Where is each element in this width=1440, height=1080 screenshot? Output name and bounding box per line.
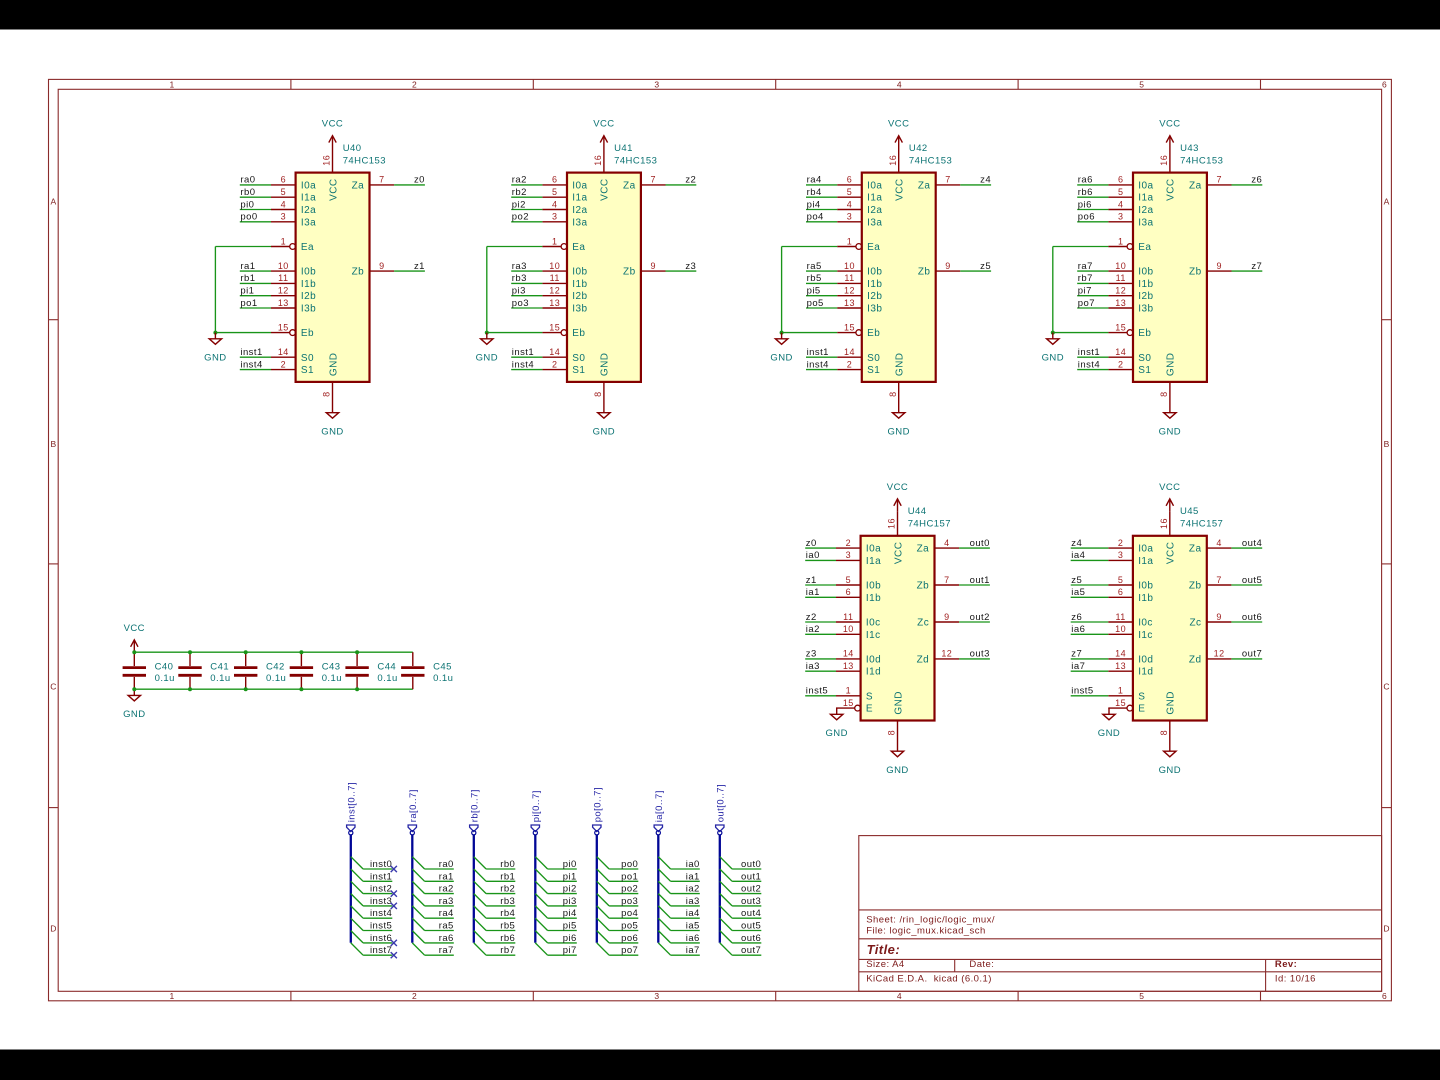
svg-text:rb5: rb5 xyxy=(500,921,515,932)
bus ra[0..7] vertical xyxy=(410,831,414,943)
junction at Eb tie of U40 xyxy=(213,331,217,335)
svg-text:12: 12 xyxy=(278,286,289,296)
no-connect X on inst7 xyxy=(391,952,397,958)
svg-text:GND: GND xyxy=(476,353,498,364)
svg-text:10: 10 xyxy=(843,624,854,634)
svg-text:z1: z1 xyxy=(414,261,425,272)
svg-text:10: 10 xyxy=(549,261,560,271)
U45 pin 16 VCC power pin xyxy=(1159,511,1170,536)
wire and net label inst4 xyxy=(511,359,542,370)
svg-text:15: 15 xyxy=(1115,322,1126,332)
svg-text:I1d: I1d xyxy=(866,667,881,678)
U41 pin 9 Zb xyxy=(623,261,665,278)
svg-text:Za: Za xyxy=(917,544,930,555)
ground symbol GND at enable tie of U43 xyxy=(1042,333,1064,364)
wire and net label ra6 xyxy=(425,933,454,944)
ruler column numbers and row letters xyxy=(50,80,1389,1002)
svg-text:I0c: I0c xyxy=(1138,618,1153,629)
svg-text:7: 7 xyxy=(650,175,655,185)
U45 pin 12 Zd xyxy=(1189,649,1231,666)
svg-text:z0: z0 xyxy=(806,538,817,549)
svg-text:4: 4 xyxy=(1216,538,1221,548)
U40 pin 7 Za xyxy=(352,175,394,192)
U44 pin 15 E xyxy=(836,698,873,715)
svg-text:7: 7 xyxy=(944,575,949,585)
svg-text:GND: GND xyxy=(1042,353,1064,364)
U40 pin 15 Eb xyxy=(271,322,314,339)
svg-text:I0a: I0a xyxy=(1138,544,1153,555)
U43 pin 11 I1b xyxy=(1108,273,1153,290)
bus entry ia4 xyxy=(658,906,670,918)
bus entry out2 xyxy=(720,881,732,893)
ground symbol GND at capacitor bank xyxy=(123,689,145,720)
svg-text:pi0: pi0 xyxy=(240,199,254,210)
U40 pin 3 I3a xyxy=(271,212,316,229)
svg-text:GND: GND xyxy=(593,427,615,438)
bus entry ra0 xyxy=(412,857,424,869)
hierarchical label inst[0..7] xyxy=(346,782,357,832)
svg-text:6: 6 xyxy=(1382,991,1387,1001)
bus entry ra2 xyxy=(412,881,424,893)
power symbol VCC at U45 xyxy=(1159,482,1180,511)
svg-text:Eb: Eb xyxy=(572,328,585,339)
wire and net label ia1 xyxy=(671,871,700,882)
bus rb[0..7] vertical xyxy=(472,831,476,943)
svg-text:ra[0..7]: ra[0..7] xyxy=(408,789,419,822)
svg-text:ra3: ra3 xyxy=(439,896,454,907)
designator U42 / value 74HC153 xyxy=(909,143,952,166)
U45 pin 3 I1a xyxy=(1108,550,1153,567)
wire and net label rb3 xyxy=(511,273,542,284)
U44 pin 2 I0a xyxy=(836,538,881,555)
svg-text:rb3: rb3 xyxy=(500,896,515,907)
svg-text:Zd: Zd xyxy=(917,654,930,665)
wire Eb tie for U41 xyxy=(487,332,543,334)
svg-text:B: B xyxy=(50,439,56,449)
svg-text:7: 7 xyxy=(945,175,950,185)
svg-text:4: 4 xyxy=(897,991,902,1001)
svg-text:ia7: ia7 xyxy=(686,945,700,956)
svg-text:16: 16 xyxy=(1159,155,1169,166)
wire and net label pi4 xyxy=(806,199,837,210)
svg-text:2: 2 xyxy=(412,80,417,90)
svg-text:pi2: pi2 xyxy=(563,884,577,895)
svg-text:15: 15 xyxy=(844,322,855,332)
wire and net label po0 xyxy=(240,212,271,223)
wire and net label out2 xyxy=(959,612,990,623)
svg-text:ia[0..7]: ia[0..7] xyxy=(654,790,665,822)
svg-text:z5: z5 xyxy=(980,261,991,272)
svg-text:I1a: I1a xyxy=(867,193,882,204)
junction at C44 top xyxy=(355,650,359,654)
wire and net label ra4 xyxy=(425,908,454,919)
svg-text:ra6: ra6 xyxy=(439,933,454,944)
wire and net label ia2 xyxy=(671,884,700,895)
U44 pin 10 I1c xyxy=(836,624,881,641)
no-connect X on inst2 xyxy=(391,891,397,897)
svg-text:Zc: Zc xyxy=(917,618,929,629)
svg-text:out7: out7 xyxy=(1242,649,1262,660)
svg-text:I3a: I3a xyxy=(572,217,587,228)
ground symbol GND below U43 xyxy=(1159,407,1181,438)
bus entry out4 xyxy=(720,906,732,918)
wire and net label po2 xyxy=(511,212,542,223)
svg-text:rb4: rb4 xyxy=(500,908,515,919)
svg-text:9: 9 xyxy=(650,261,655,271)
svg-text:po[0..7]: po[0..7] xyxy=(592,787,603,822)
bus entry ia6 xyxy=(658,931,670,943)
U43 pin 3 I3a xyxy=(1108,212,1153,229)
wire and net label pi7 xyxy=(548,945,577,956)
svg-text:I1b: I1b xyxy=(572,279,587,290)
wire and net label rb2 xyxy=(511,187,542,198)
wire and net label po6 xyxy=(609,933,638,944)
svg-text:2: 2 xyxy=(552,359,557,369)
U43 pin 14 S0 xyxy=(1108,347,1151,364)
ruler division ticks xyxy=(49,79,1392,1000)
capacitor C41 0.1u xyxy=(178,652,230,689)
bus entry pi2 xyxy=(535,881,547,893)
U40 pin 9 Zb xyxy=(352,261,394,278)
svg-text:I1a: I1a xyxy=(301,193,316,204)
wire and net label ia7 xyxy=(671,945,700,956)
svg-text:15: 15 xyxy=(1115,698,1126,708)
U40 pin 4 I2a xyxy=(271,199,316,216)
svg-text:D: D xyxy=(50,924,56,934)
wire and net label inst1 xyxy=(1077,347,1108,358)
svg-text:Title:: Title: xyxy=(867,942,901,957)
U42 pin 7 Za xyxy=(918,175,960,192)
svg-text:16: 16 xyxy=(1159,518,1169,529)
svg-text:po5: po5 xyxy=(807,298,824,309)
svg-text:out2: out2 xyxy=(741,884,761,895)
wire Eb tie for U42 xyxy=(782,332,838,334)
wire and net label inst7 xyxy=(363,945,392,956)
bus entry ia2 xyxy=(658,881,670,893)
wire and net label pi2 xyxy=(548,884,577,895)
svg-text:z6: z6 xyxy=(1071,612,1082,623)
svg-text:I2b: I2b xyxy=(1138,291,1153,302)
wire and net label po5 xyxy=(806,298,837,309)
svg-text:I3b: I3b xyxy=(572,304,587,315)
wire and net label ia6 xyxy=(671,933,700,944)
U40 pin 6 I0a xyxy=(271,175,316,192)
wire Eb tie for U43 xyxy=(1053,332,1109,334)
U44 pin 11 I0c xyxy=(836,612,881,629)
bus entry po5 xyxy=(597,918,609,930)
svg-text:I3b: I3b xyxy=(301,304,316,315)
wire and net label po6 xyxy=(1077,212,1108,223)
svg-text:3: 3 xyxy=(847,212,852,222)
svg-text:pi3: pi3 xyxy=(563,896,577,907)
svg-text:rb2: rb2 xyxy=(512,187,527,198)
svg-text:10: 10 xyxy=(1115,624,1126,634)
U45 pin 1 S xyxy=(1108,686,1145,703)
svg-text:out5: out5 xyxy=(1242,575,1262,586)
U41 pin 7 Za xyxy=(623,175,665,192)
svg-text:16: 16 xyxy=(887,518,897,529)
svg-text:4: 4 xyxy=(847,199,852,209)
svg-text:GND: GND xyxy=(825,728,847,739)
svg-text:z6: z6 xyxy=(1251,175,1262,186)
svg-text:ia3: ia3 xyxy=(686,896,700,907)
svg-text:inst4: inst4 xyxy=(1078,359,1100,370)
U40 pin 11 I1b xyxy=(271,273,316,290)
power symbol VCC at U43 xyxy=(1159,119,1180,148)
wire and net label pi5 xyxy=(548,921,577,932)
ground symbol GND below U41 xyxy=(593,407,615,438)
svg-text:rb6: rb6 xyxy=(500,933,515,944)
svg-text:I0b: I0b xyxy=(1138,581,1153,592)
U42 pin 13 I3b xyxy=(837,298,882,315)
ground symbol GND below U44 xyxy=(886,745,908,776)
U42 pin 8 GND power pin xyxy=(888,382,899,407)
svg-text:GND: GND xyxy=(321,427,343,438)
svg-text:4: 4 xyxy=(552,199,557,209)
svg-text:U40: U40 xyxy=(343,143,362,154)
svg-text:z5: z5 xyxy=(1071,575,1082,586)
svg-text:pi7: pi7 xyxy=(563,945,577,956)
U45 pin 2 I0a xyxy=(1108,538,1153,555)
U41 pin 2 S1 xyxy=(542,359,585,376)
wire Ea tie for U42 xyxy=(782,247,838,333)
ground symbol GND at enable tie of U41 xyxy=(476,333,498,364)
svg-text:I0b: I0b xyxy=(867,267,882,278)
wire and net label ra7 xyxy=(425,945,454,956)
svg-text:Eb: Eb xyxy=(867,328,880,339)
svg-text:14: 14 xyxy=(278,347,289,357)
svg-text:ia1: ia1 xyxy=(806,587,820,598)
svg-text:1: 1 xyxy=(170,80,175,90)
svg-text:VCC: VCC xyxy=(887,482,908,493)
svg-text:4: 4 xyxy=(897,80,902,90)
hierarchical label ra[0..7] xyxy=(408,789,419,831)
bus entry rb0 xyxy=(474,857,486,869)
svg-text:12: 12 xyxy=(1115,286,1126,296)
svg-text:GND: GND xyxy=(1159,427,1181,438)
svg-text:ra1: ra1 xyxy=(240,261,255,272)
svg-text:pi6: pi6 xyxy=(563,933,577,944)
U41 pin 6 I0a xyxy=(542,175,587,192)
svg-text:1: 1 xyxy=(170,991,175,1001)
svg-text:po3: po3 xyxy=(512,298,529,309)
wire and net label rb2 xyxy=(486,884,515,895)
U41 pin 15 Eb xyxy=(542,322,585,339)
wire and net label po7 xyxy=(609,945,638,956)
bus entry ia1 xyxy=(658,869,670,881)
svg-text:po6: po6 xyxy=(1078,212,1095,223)
U44 pin 13 I1d xyxy=(836,661,881,678)
svg-text:po0: po0 xyxy=(621,859,638,870)
svg-text:ia5: ia5 xyxy=(686,921,700,932)
capacitor C45 0.1u xyxy=(401,652,453,689)
svg-text:ra7: ra7 xyxy=(1078,261,1093,272)
svg-text:ia5: ia5 xyxy=(1071,587,1085,598)
svg-text:ia2: ia2 xyxy=(806,624,820,635)
svg-text:inst6: inst6 xyxy=(370,933,392,944)
wire and net label z7 xyxy=(1232,261,1263,272)
svg-text:15: 15 xyxy=(549,322,560,332)
svg-text:rb3: rb3 xyxy=(512,273,527,284)
wire and net label rb7 xyxy=(486,945,515,956)
bus entry ra5 xyxy=(412,918,424,930)
svg-text:8: 8 xyxy=(593,391,603,396)
junction at C40 bottom xyxy=(132,687,136,691)
hierarchical label rb[0..7] xyxy=(469,789,480,831)
svg-text:15: 15 xyxy=(843,698,854,708)
wire and net label ia3 xyxy=(805,661,836,672)
svg-text:inst4: inst4 xyxy=(240,359,262,370)
wire and net label ia4 xyxy=(671,908,700,919)
svg-text:out0: out0 xyxy=(741,859,761,870)
bus entry rb1 xyxy=(474,869,486,881)
svg-text:13: 13 xyxy=(278,298,289,308)
svg-text:VCC: VCC xyxy=(328,178,339,200)
svg-text:GND: GND xyxy=(770,353,792,364)
svg-text:ra1: ra1 xyxy=(439,871,454,882)
bus entry inst7 xyxy=(351,943,363,955)
junction at C42 top xyxy=(244,650,248,654)
svg-text:Sheet: /rin_logic/logic_mux/: Sheet: /rin_logic/logic_mux/ xyxy=(866,915,995,926)
power symbol VCC at U41 xyxy=(593,119,614,148)
ground symbol GND at E pin of U45 xyxy=(1098,708,1120,739)
svg-text:VCC: VCC xyxy=(893,542,904,564)
IC U43 74HC153 body xyxy=(1133,173,1207,382)
svg-text:File: logic_mux.kicad_sch: File: logic_mux.kicad_sch xyxy=(866,925,986,936)
U45 pin 11 I0c xyxy=(1108,612,1153,629)
svg-text:U43: U43 xyxy=(1180,143,1199,154)
U43 pin 2 S1 xyxy=(1108,359,1151,376)
svg-text:z2: z2 xyxy=(685,175,696,186)
svg-text:ia6: ia6 xyxy=(686,933,700,944)
wire and net label out1 xyxy=(959,575,990,586)
bus entry pi3 xyxy=(535,894,547,906)
wire and net label z0 xyxy=(394,175,425,186)
svg-text:0.1u: 0.1u xyxy=(266,673,286,684)
svg-text:pi7: pi7 xyxy=(1078,286,1092,297)
svg-text:74HC157: 74HC157 xyxy=(908,519,951,530)
wire and net label inst1 xyxy=(511,347,542,358)
svg-text:ia0: ia0 xyxy=(806,550,820,561)
wire and net label out6 xyxy=(1231,612,1262,623)
wire and net label inst6 xyxy=(363,933,392,944)
svg-text:out0: out0 xyxy=(970,538,990,549)
svg-text:out3: out3 xyxy=(970,649,990,660)
U42 pin 15 Eb xyxy=(837,322,880,339)
svg-text:VCC: VCC xyxy=(593,119,614,130)
svg-text:out5: out5 xyxy=(741,921,761,932)
wire and net label rb1 xyxy=(486,871,515,882)
svg-text:13: 13 xyxy=(549,298,560,308)
U43 pin 1 Ea xyxy=(1108,236,1151,253)
svg-text:A: A xyxy=(1384,197,1390,207)
svg-text:out6: out6 xyxy=(741,933,761,944)
wire and net label ia7 xyxy=(1071,661,1109,672)
bus entry rb3 xyxy=(474,894,486,906)
bus entry ra7 xyxy=(412,943,424,955)
svg-text:I0b: I0b xyxy=(866,581,881,592)
wire and net label rb3 xyxy=(486,896,515,907)
svg-text:12: 12 xyxy=(844,286,855,296)
svg-text:Zb: Zb xyxy=(1189,581,1202,592)
svg-text:3: 3 xyxy=(846,550,851,560)
wire and net label inst0 xyxy=(363,859,392,870)
svg-text:GND: GND xyxy=(1166,353,1177,377)
svg-text:Zc: Zc xyxy=(1189,618,1201,629)
svg-text:Id: 10/16: Id: 10/16 xyxy=(1275,973,1316,984)
svg-text:I1b: I1b xyxy=(1138,593,1153,604)
svg-text:I3a: I3a xyxy=(301,217,316,228)
junction at C41 bottom xyxy=(188,687,192,691)
svg-text:5: 5 xyxy=(1118,575,1123,585)
wire and net label ia3 xyxy=(671,896,700,907)
wire and net label ia5 xyxy=(671,921,700,932)
svg-text:3: 3 xyxy=(654,991,659,1001)
svg-text:I1b: I1b xyxy=(1138,279,1153,290)
svg-text:out3: out3 xyxy=(741,896,761,907)
wire and net label ia4 xyxy=(1071,550,1109,561)
U42 pin 1 Ea xyxy=(837,236,880,253)
svg-text:po0: po0 xyxy=(240,212,257,223)
U43 pin 10 I0b xyxy=(1108,261,1153,278)
svg-text:11: 11 xyxy=(1115,612,1125,622)
wire and net label z3 xyxy=(666,261,697,272)
svg-text:GND: GND xyxy=(328,353,339,377)
svg-text:6: 6 xyxy=(847,175,852,185)
no-connect X on inst3 xyxy=(391,903,397,909)
svg-text:GND: GND xyxy=(1166,691,1177,715)
U44 pin 14 I0d xyxy=(836,649,881,666)
svg-text:z2: z2 xyxy=(806,612,817,623)
U45 pin 8 GND power pin xyxy=(1159,720,1170,745)
svg-text:C41: C41 xyxy=(210,662,229,673)
svg-text:po7: po7 xyxy=(621,945,638,956)
IC U40 74HC153 body xyxy=(296,173,370,382)
svg-text:GND: GND xyxy=(886,765,908,776)
svg-text:rb6: rb6 xyxy=(1078,187,1093,198)
svg-text:I1c: I1c xyxy=(1138,630,1153,641)
wire and net label inst4 xyxy=(1077,359,1108,370)
wire and net label z6 xyxy=(1071,612,1109,623)
svg-text:S0: S0 xyxy=(301,353,314,364)
svg-text:I3b: I3b xyxy=(1138,304,1153,315)
wire and net label po3 xyxy=(609,896,638,907)
bus entry inst4 xyxy=(351,906,363,918)
designator U44 / value 74HC157 xyxy=(908,506,951,529)
svg-text:0.1u: 0.1u xyxy=(433,673,453,684)
svg-text:po7: po7 xyxy=(1078,298,1095,309)
wire and net label rb5 xyxy=(486,921,515,932)
svg-text:pi2: pi2 xyxy=(512,199,526,210)
svg-text:11: 11 xyxy=(550,273,560,283)
svg-text:3: 3 xyxy=(1118,212,1123,222)
svg-text:inst4: inst4 xyxy=(512,359,534,370)
U44 pin 16 VCC power pin xyxy=(887,511,898,536)
svg-text:I2a: I2a xyxy=(301,205,316,216)
U45 pin 7 Zb xyxy=(1189,575,1231,592)
svg-text:B: B xyxy=(1384,439,1390,449)
svg-text:inst0: inst0 xyxy=(370,859,392,870)
bus entry pi0 xyxy=(535,857,547,869)
U41 pin 16 VCC power pin xyxy=(593,148,604,173)
svg-text:pi[0..7]: pi[0..7] xyxy=(531,790,542,822)
svg-text:S: S xyxy=(866,691,873,702)
junction at C43 top xyxy=(299,650,303,654)
svg-text:z4: z4 xyxy=(980,175,991,186)
svg-text:rb2: rb2 xyxy=(500,884,515,895)
wire and net label out3 xyxy=(959,649,990,660)
svg-text:po1: po1 xyxy=(621,871,638,882)
